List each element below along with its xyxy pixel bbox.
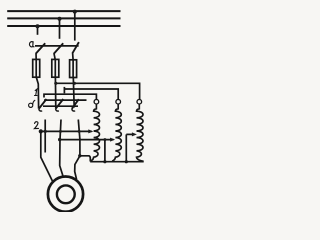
- wire riser2 to star line: [104, 140, 106, 162]
- switch b pivot hook 1: [39, 109, 42, 111]
- wire star line: [90, 161, 144, 163]
- wire fuse1 down V1: [36, 77, 38, 108]
- switch b blade 1: [39, 99, 47, 109]
- motor rotor circle: [57, 185, 75, 203]
- autotransformer coil 1: [90, 104, 99, 161]
- node stub2 dot: [59, 130, 62, 133]
- coil3 terminal circle: [137, 99, 142, 104]
- node tap2 dot: [58, 17, 62, 21]
- node stub3 dot: [78, 130, 81, 133]
- wire tap3 route horizontal: [80, 156, 90, 162]
- arrow tap2: [110, 138, 115, 142]
- fuse F2: [52, 59, 59, 77]
- arrow tap1: [88, 129, 93, 133]
- switch b linkage bar: [44, 99, 87, 101]
- label a (switch): [29, 42, 34, 47]
- autotransformer coil 2: [112, 104, 121, 161]
- wire tap2 line with arrow to coil2: [60, 139, 114, 141]
- node stub1 dot: [44, 130, 47, 133]
- wire Hc to coil1 top: [44, 94, 96, 99]
- wire tap1 line with arrow to coil1: [41, 130, 92, 132]
- node tap1-left dot: [39, 129, 43, 133]
- wire Ha to autotransformer coil3 top: [56, 83, 140, 99]
- fuse F3: [70, 60, 77, 78]
- switch a blade 2: [54, 43, 63, 53]
- contact stub 1 of position 2: [44, 120, 46, 132]
- node lead3 dot: [78, 154, 81, 157]
- node riser2 top dot: [103, 138, 106, 141]
- fuse F1: [33, 59, 40, 77]
- motor lead 3: [75, 156, 80, 180]
- node tap2-lead2 dot: [58, 138, 61, 141]
- switch b blade 3: [72, 99, 79, 109]
- bus line L3: [7, 25, 120, 27]
- label 1 (position): [35, 89, 38, 95]
- switch b pivot bar: [43, 105, 78, 107]
- wire blade2 to fuse2: [54, 53, 55, 59]
- switch a blade 1: [36, 43, 45, 53]
- node tap1 dot: [36, 24, 40, 28]
- wire tap phase 1: [37, 26, 39, 35]
- switch a linkage bar: [35, 45, 79, 47]
- node Ha-V2 junction: [54, 82, 57, 85]
- switch b pivot hook 2: [56, 109, 59, 111]
- contact stub 2 / motor lead 2: [60, 120, 64, 177]
- wire tap3 riser: [125, 134, 127, 161]
- node riser2 bottom dot: [103, 160, 106, 163]
- switch a blade 3: [72, 42, 79, 53]
- node tap3 dot: [73, 10, 77, 14]
- wire tap phase 3: [74, 11, 76, 40]
- wire blade3 to fuse3: [72, 53, 75, 60]
- arrow tap3: [132, 132, 137, 136]
- wire tap3 line with arrow to coil3: [126, 133, 134, 135]
- switch b blade 2: [56, 99, 64, 109]
- bus line L1: [7, 10, 120, 12]
- wire Hb to coil2 top: [63, 87, 65, 93]
- switch b pivot hook 3: [72, 109, 75, 111]
- contact stub 3 / lead to star line: [78, 120, 80, 156]
- node riser3 bottom dot: [125, 160, 128, 163]
- label 2 (position): [34, 122, 38, 129]
- motor stator circle: [48, 177, 83, 212]
- wire blade1 to fuse1: [35, 53, 37, 59]
- autotransformer coil 3: [137, 104, 144, 161]
- label б (switch): [29, 100, 35, 107]
- node Ha-V3 junction: [73, 82, 76, 85]
- coil2 terminal circle: [116, 99, 121, 104]
- coil1 terminal circle: [94, 99, 99, 104]
- wire below stub1: [44, 131, 46, 152]
- wire fuse2 down V2: [54, 77, 56, 108]
- wire fuse3 down V3: [72, 78, 75, 108]
- wire tap phase 2: [59, 18, 61, 38]
- bus line L2: [7, 17, 120, 19]
- motor lead 1: [41, 131, 54, 183]
